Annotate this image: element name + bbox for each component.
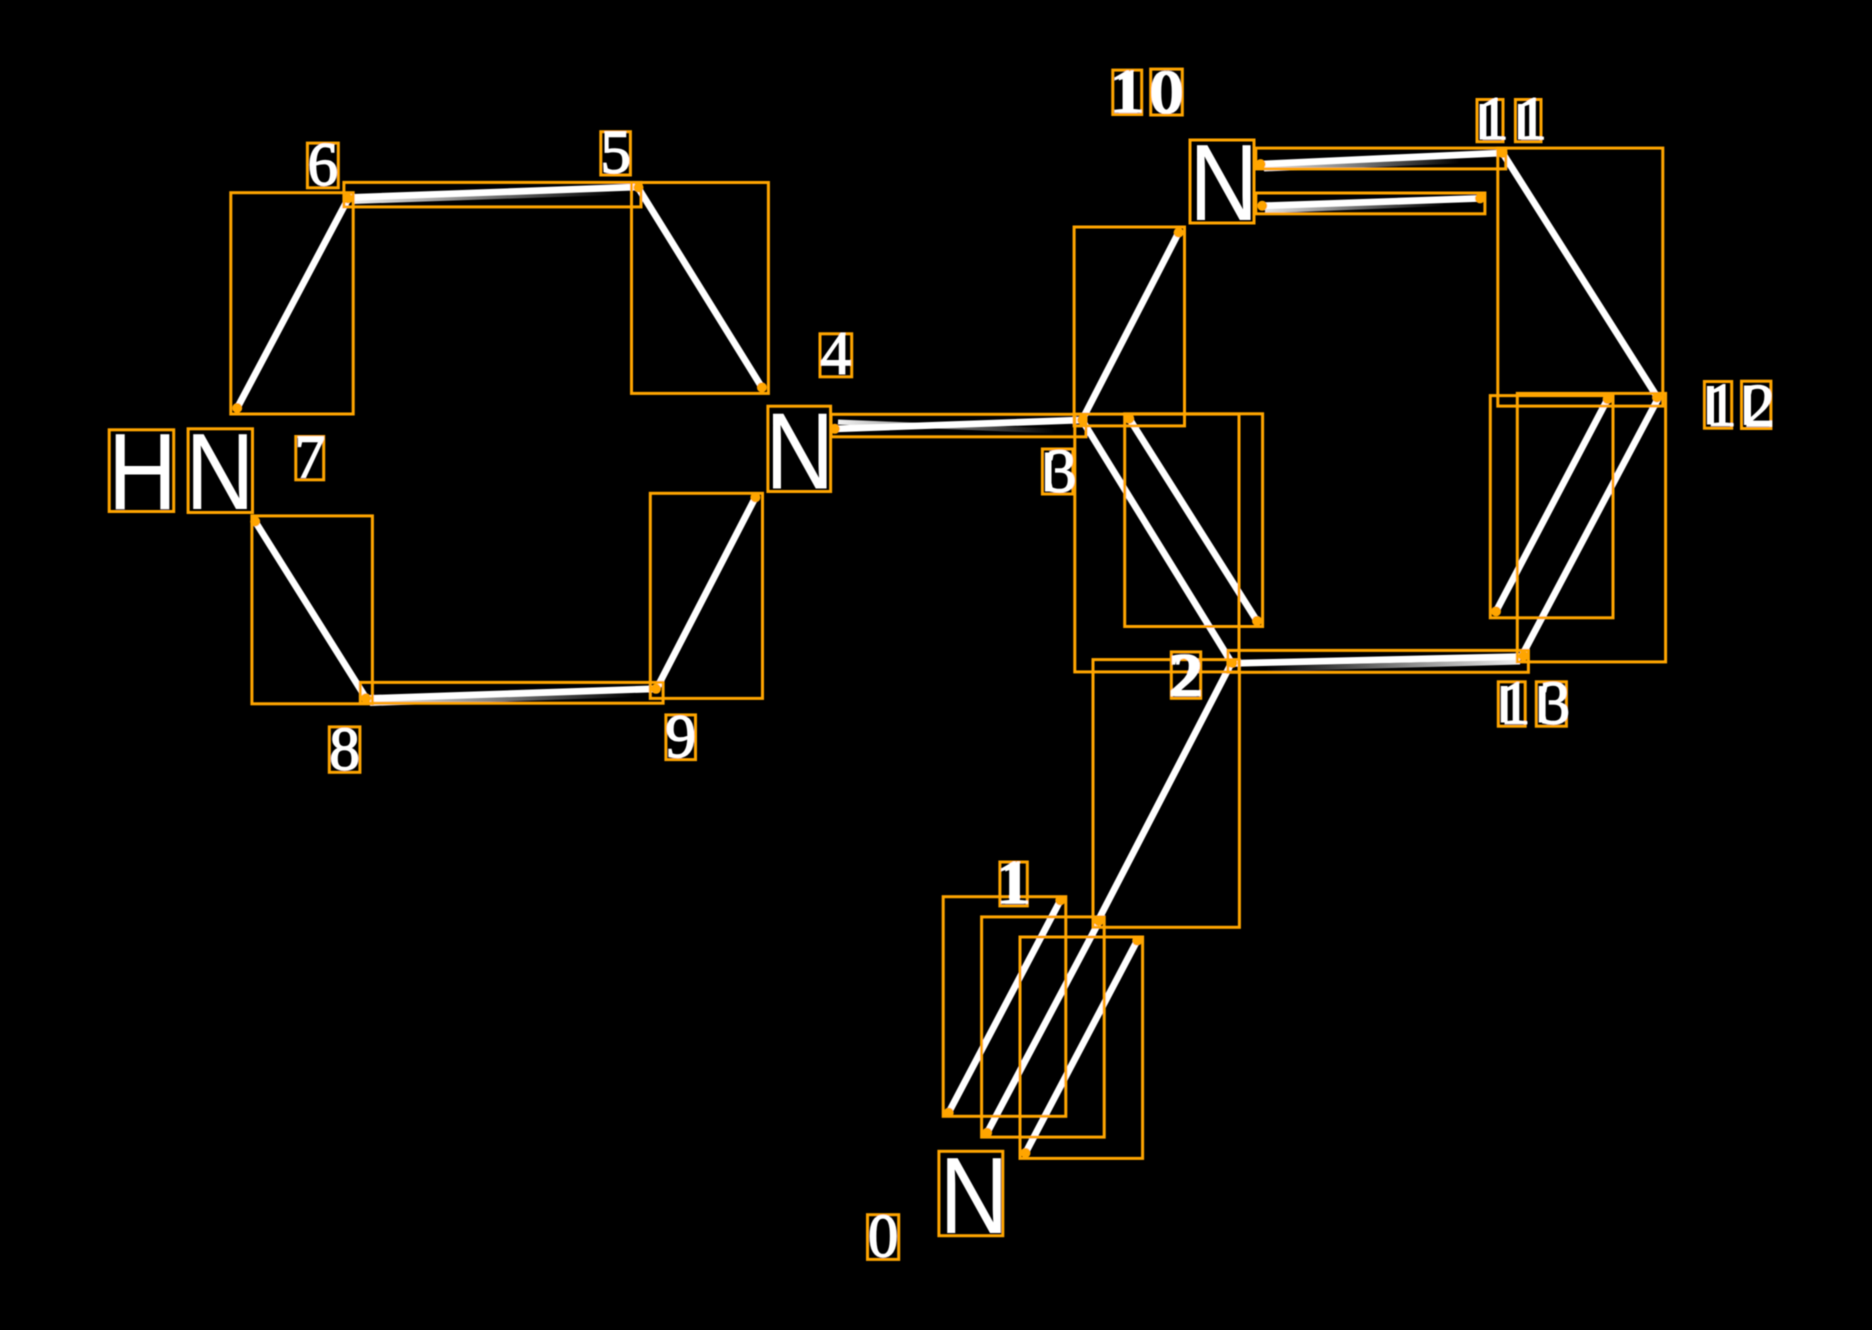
index label 12 digit 2 box (1742, 381, 1771, 428)
bbox bond 1-0 middle (982, 917, 1105, 1137)
index label 2 box (1171, 652, 1200, 698)
wire bond 7-8 (255, 522, 365, 698)
node dot atom 3 (1077, 415, 1087, 425)
index label 1 box (1000, 862, 1027, 906)
index label 3 box (1042, 449, 1073, 494)
bbox bond 3-2 inner (1125, 414, 1263, 627)
bbox bond 6-7 (231, 193, 353, 414)
node dot N4 bottom (750, 492, 760, 502)
node dot N10 right outer (1256, 159, 1266, 169)
index label 0 box (868, 1215, 899, 1260)
bbox bond 9-4 (650, 493, 762, 698)
svg-text:6: 6 (308, 132, 339, 199)
svg-text:N: N (185, 410, 254, 532)
svg-text:8: 8 (329, 717, 360, 784)
index label 6 box (307, 143, 338, 188)
node dot atom 9 (651, 684, 661, 694)
svg-text:N: N (939, 1134, 1008, 1256)
bbox atom N4 (768, 406, 831, 491)
node dot 1-0 right bottom (1021, 1148, 1031, 1158)
wire bond 3-2 inner line (1129, 419, 1257, 621)
wire bond 10-11 outer smear (1264, 161, 1460, 169)
node dot N10 bottom (1174, 228, 1184, 238)
bbox bond 12-13 outer (1517, 393, 1665, 662)
bbox bond 1-0 left (943, 897, 1066, 1117)
node dot 3-2 inner bottom (1252, 616, 1262, 626)
bbox bond 2-1 (1093, 660, 1239, 928)
wire bond 13-2 (1233, 657, 1524, 664)
bbox atom H of HN (109, 430, 174, 512)
node dot atom 1 (1094, 916, 1104, 926)
wire bond 5-4 (638, 188, 762, 388)
wire bond 4-3 (835, 420, 1082, 429)
index label 10 digit 0 box (1151, 69, 1183, 115)
node dot atom 5 (634, 183, 644, 193)
index label 5 box (601, 132, 631, 175)
index label 13 digit 1 ghost stripe (1501, 686, 1508, 723)
bbox bond 3-10 (1074, 227, 1184, 426)
svg-text:0: 0 (868, 1204, 899, 1271)
index label 11 digit 1b ghost stripe (1518, 104, 1525, 140)
node dot N4 top (757, 382, 767, 392)
index label 13 digit 1 box (1498, 682, 1525, 726)
bbox bond 6-5 (344, 182, 641, 207)
index label 11 digit 1b box (1515, 100, 1541, 142)
wire bond 8-9 (367, 689, 656, 699)
wire bond 6-5 (349, 187, 638, 198)
wire bond 13-2 smear (1265, 662, 1520, 669)
bbox atom N0 (939, 1151, 1003, 1235)
svg-text:N: N (765, 390, 834, 512)
svg-text:1: 1 (1001, 850, 1032, 917)
index label 12 digit 1 box (1704, 382, 1731, 429)
bbox bond 5-4 (632, 183, 769, 394)
wire bond 1-0 middle line (987, 922, 1099, 1133)
bbox bond 3-2 outer (1075, 414, 1239, 672)
node dot 3-2 inner top (1124, 414, 1134, 424)
bbox bond 11-12 (1498, 148, 1663, 406)
node dot HN top (232, 403, 242, 413)
node dot atom 12 (1652, 393, 1662, 403)
wire bond 10-11 inner smear (1265, 204, 1445, 211)
bbox bond 1-0 right (1020, 937, 1143, 1158)
wire bond 2-1 (1099, 663, 1232, 920)
index label 12 digit 1 ghost stripe (1707, 386, 1714, 425)
wire bond 12-13 outer line (1523, 398, 1659, 654)
svg-text:9: 9 (665, 704, 696, 771)
svg-text:1: 1 (1114, 59, 1145, 126)
wire bond 1-0 right line (1026, 941, 1138, 1153)
bbox bond 10-11 outer (1256, 148, 1506, 169)
svg-text:0: 0 (1153, 59, 1184, 126)
wire bond 10-11 inner line (1262, 198, 1480, 205)
index label 11 digit 1a box (1477, 100, 1503, 142)
node dot atom 8 (361, 693, 371, 703)
svg-text:5: 5 (600, 119, 631, 186)
index label 11 digit 1a ghost stripe (1480, 104, 1487, 140)
svg-text:2: 2 (1173, 643, 1204, 710)
svg-text:N: N (1189, 121, 1258, 243)
node dot atom 2 (1227, 658, 1237, 668)
node dot 1-0 left top (1055, 895, 1065, 905)
bbox bond 12-13 inner (1490, 396, 1613, 618)
wire bond 4-3 smear (838, 422, 1055, 431)
index label 13 digit 3 box (1536, 682, 1566, 726)
node dot atom 11 (1498, 148, 1508, 158)
wire bond 12-13 inner line (1496, 399, 1608, 611)
node dot HN bottom (250, 517, 260, 527)
bbox bond 7-8 (252, 516, 373, 704)
index label 9 box (666, 715, 696, 760)
wire bond 9-4 (657, 497, 756, 688)
index label 12 digit 2 ghost stripe (1744, 386, 1751, 426)
wire bond 3-2 outer line (1082, 420, 1232, 663)
wire bond 1-0 left line (949, 900, 1061, 1112)
svg-text:H: H (108, 410, 177, 532)
bbox bond 10-11 inner (1256, 193, 1485, 214)
wire bond 8-9 smear (370, 695, 635, 704)
wire bond 3-10 (1082, 233, 1179, 420)
node dot 12-13 inner bottom (1491, 606, 1501, 616)
wire bond 10-11 outer line (1261, 153, 1502, 164)
wire bond 11-12 (1503, 153, 1658, 398)
wire bond 6-7 (237, 198, 349, 409)
node dot 1-0 left bottom (944, 1108, 954, 1118)
node dot N10 right inner (1257, 201, 1267, 211)
node dot N4 right (830, 424, 840, 434)
index label 13 digit 3 ghost stripe (1539, 686, 1546, 723)
node dot 12-13 inner top (1603, 394, 1613, 404)
svg-text:4: 4 (821, 321, 852, 388)
index label 4 box (820, 334, 852, 377)
index label 8 box (329, 727, 360, 772)
svg-text:7: 7 (294, 424, 325, 491)
bbox bond 13-2 (1228, 650, 1529, 672)
index label 10 digit 1 box (1113, 70, 1142, 114)
wire bond 6-5 smear (352, 193, 615, 202)
node dot atom 6 (343, 194, 353, 204)
node dot 1-0 middle bottom (982, 1128, 992, 1138)
node dot atom 13 (1519, 651, 1529, 661)
node dot 1-0 right top (1132, 936, 1142, 946)
bbox atom N7 of HN (188, 429, 252, 513)
bbox bond 8-9 (360, 682, 663, 703)
index label 7 box (296, 437, 324, 480)
bbox atom N10 (1190, 140, 1254, 223)
bbox bond 4-3 (831, 414, 1086, 437)
index label 3 ghost stripe (1045, 453, 1052, 492)
node dot 10-11 inner end (1475, 193, 1485, 203)
